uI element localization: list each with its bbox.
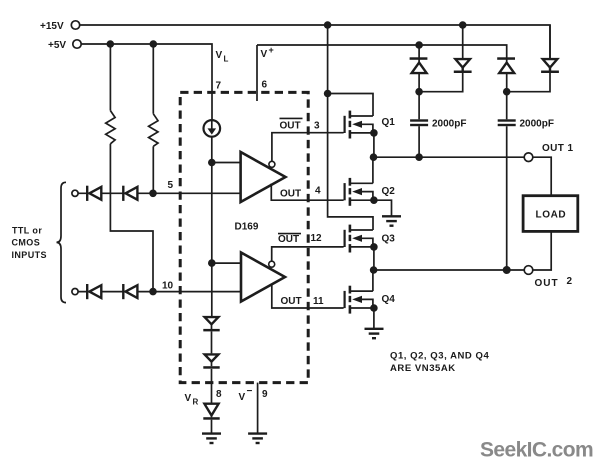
transistor Q2 — [345, 178, 378, 206]
note Q1..Q4 — [390, 351, 489, 375]
wire OUT1 row — [374, 156, 525, 158]
svg-text:CMOS: CMOS — [12, 238, 41, 248]
wire Q2 drain to OUT1 — [372, 157, 374, 183]
svg-text:OUT: OUT — [535, 278, 559, 289]
wire V+ rail to top diodes — [257, 45, 507, 63]
wire D7 to ground — [211, 420, 213, 434]
wire reference chain — [211, 137, 213, 316]
wire OUT2 row — [374, 269, 525, 271]
wire pin 12 (OUT-bar) to Q3 gate — [272, 247, 344, 261]
node +15V/diode D2 — [459, 21, 467, 29]
svg-text:OUT: OUT — [278, 234, 299, 245]
svg-text:9: 9 — [262, 389, 268, 400]
IC D169 dashed box — [180, 92, 308, 382]
svg-text:OUT: OUT — [281, 296, 302, 307]
terminal OUT 2 — [524, 266, 533, 275]
diode D5 (reference chain) — [203, 317, 219, 331]
node +5V/R2 — [150, 40, 158, 48]
svg-text:V: V — [185, 393, 192, 404]
svg-text:OUT: OUT — [280, 189, 301, 200]
svg-text:L: L — [224, 55, 229, 64]
node OUT1/C1 — [415, 153, 423, 161]
svg-text:Q1, Q2, Q3, AND Q4: Q1, Q2, Q3, AND Q4 — [390, 351, 489, 362]
svg-text:V: V — [261, 49, 268, 60]
node Q1 drain tap — [324, 90, 332, 98]
diode CR2 (input clamp) — [122, 186, 137, 201]
svg-text:12: 12 — [311, 233, 323, 244]
diode D3 (catch, up) — [497, 57, 515, 91]
label V- — [239, 386, 253, 403]
wire OUT2 to LOAD — [533, 231, 551, 270]
node OUT2/Q3-Q4 — [370, 266, 378, 274]
wire OUT1 to LOAD — [533, 157, 551, 196]
wire R2 to input row1 — [152, 146, 154, 193]
input brace — [57, 182, 67, 302]
diode D7 (below box) — [203, 404, 219, 420]
wire amp2 ref input — [212, 262, 241, 264]
wire input row1 — [78, 192, 241, 194]
ground (Q2) — [382, 216, 401, 225]
svg-text:2: 2 — [567, 276, 573, 287]
capacitor C2 2000pF — [498, 92, 516, 270]
wire D5-D6 — [211, 332, 213, 354]
svg-text:SeekIC.com: SeekIC.com — [480, 439, 593, 462]
power terminal +5V — [48, 40, 81, 51]
svg-text:OUT 1: OUT 1 — [542, 143, 573, 154]
resistor R1 — [106, 44, 115, 144]
transistor Q4 — [345, 286, 378, 314]
comparator U1a — [241, 152, 286, 202]
svg-text:TTL or: TTL or — [12, 226, 42, 236]
svg-text:OUT: OUT — [280, 121, 301, 132]
svg-text:7: 7 — [216, 81, 222, 92]
node row1/R2 — [149, 190, 157, 198]
node row2/jog — [149, 288, 157, 296]
diode D6 (reference chain) — [203, 354, 219, 368]
diode CR3 (input clamp) — [86, 284, 101, 299]
wire R1 to input row2 jog — [110, 144, 153, 292]
svg-text:11: 11 — [313, 296, 324, 307]
svg-text:Q4: Q4 — [382, 294, 396, 305]
label OUT-bar pin 12 — [278, 233, 322, 245]
svg-text:D169: D169 — [235, 222, 259, 233]
wire +15V drop to Q drains — [328, 25, 373, 230]
svg-text:LOAD: LOAD — [536, 210, 567, 221]
node ref/amp2 — [208, 259, 216, 267]
node OUT2/C2 — [503, 266, 511, 274]
diode CR4 (input clamp) — [122, 284, 137, 299]
label V+ — [261, 45, 274, 60]
comparator U1b — [241, 253, 285, 302]
wire Q2 source to ground — [374, 200, 392, 216]
wire pin 8 — [211, 369, 213, 403]
svg-text:+15V: +15V — [40, 21, 64, 32]
resistor R2 — [149, 44, 158, 146]
label TTL or CMOS INPUTS — [12, 226, 47, 260]
svg-text:V: V — [216, 50, 223, 61]
wire Q4 source to ground — [373, 308, 375, 329]
svg-text:Q1: Q1 — [382, 117, 396, 128]
node V+/diode D1 — [415, 41, 423, 49]
svg-text:2000pF: 2000pF — [520, 119, 554, 130]
power terminal +15V — [40, 21, 80, 32]
svg-text:Q2: Q2 — [382, 186, 396, 197]
wire pin 11 (OUT) to Q4 gate — [272, 284, 344, 309]
wire V- pin 9 — [257, 383, 259, 434]
svg-text:+: + — [269, 45, 274, 55]
label OUT 2 — [535, 276, 573, 289]
svg-text:2000pF: 2000pF — [432, 119, 466, 130]
transistor Q3 — [345, 225, 378, 253]
ground (Q4) — [365, 329, 384, 338]
svg-text:INPUTS: INPUTS — [12, 250, 47, 260]
svg-text:3: 3 — [314, 121, 320, 132]
svg-text:4: 4 — [315, 186, 321, 197]
node OUT1/Q1-Q2 — [370, 153, 378, 161]
wire Q4 drain to OUT2 — [372, 270, 374, 291]
svg-text:R: R — [193, 398, 199, 407]
node D3-D4/C2 — [503, 88, 511, 96]
wire Q3 source to OUT2 — [373, 247, 375, 270]
wire +5V rail to VL — [81, 44, 212, 120]
wire amp1 ref input — [212, 162, 241, 164]
diode D1 (catch, up) — [410, 45, 428, 92]
wire input row2 — [78, 291, 241, 293]
svg-text:10: 10 — [162, 281, 174, 292]
svg-text:8: 8 — [216, 389, 222, 400]
svg-text:Q3: Q3 — [382, 234, 396, 245]
svg-text:5: 5 — [168, 180, 174, 191]
node D1-D2/C1 — [415, 88, 423, 96]
ground (V-) — [248, 434, 267, 443]
diode D4 (catch, down) — [507, 25, 559, 92]
capacitor C1 2000pF — [410, 92, 428, 158]
label VR — [185, 393, 199, 407]
wire +15V rail — [80, 25, 550, 59]
svg-text:V: V — [239, 392, 246, 403]
svg-text:6: 6 — [262, 80, 268, 91]
diode D2 (catch, down) — [419, 25, 471, 92]
label OUT pin 4 — [280, 186, 321, 200]
transistor Q1 — [345, 111, 378, 139]
wire pin 3 (OUT-bar) to Q1 gate — [272, 133, 344, 162]
input terminal 2 — [72, 289, 78, 295]
node +15V/Q-rail — [324, 21, 332, 29]
wire pin 4 (OUT) to Q2 gate — [271, 184, 343, 201]
current source I1 — [204, 120, 221, 137]
svg-text:+5V: +5V — [48, 40, 66, 51]
wire V+ stub pin 6 — [256, 45, 258, 101]
ground (reference chain) — [202, 434, 221, 443]
node +5V/R1 — [107, 40, 115, 48]
terminal OUT 1 — [524, 153, 533, 162]
wire Q1 drain — [328, 94, 373, 117]
wire Q1 source to OUT1 — [373, 133, 375, 157]
input terminal 1 — [72, 190, 78, 196]
node ref/amp1 — [208, 159, 216, 167]
svg-text:ARE VN35AK: ARE VN35AK — [390, 363, 456, 374]
load box — [523, 196, 578, 232]
svg-text:−: − — [247, 386, 253, 397]
diode CR1 (input clamp) — [86, 186, 101, 201]
label OUT pin 11 — [281, 296, 325, 307]
label OUT-bar pin 3 — [280, 118, 321, 131]
label VL — [216, 50, 229, 64]
